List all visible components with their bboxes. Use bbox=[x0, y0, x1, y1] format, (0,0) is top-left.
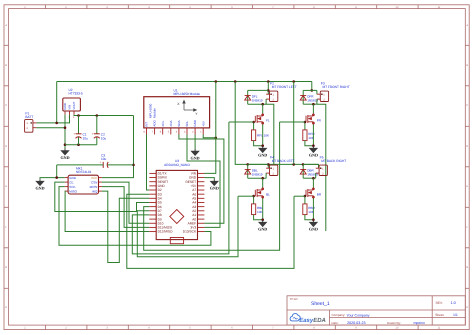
wire capacitor ground rail bbox=[65, 144, 97, 146]
svg-text:B: B bbox=[5, 64, 7, 67]
wire drain BR bbox=[312, 178, 314, 187]
transistor BL bbox=[254, 187, 264, 198]
svg-text:1.0: 1.0 bbox=[450, 301, 455, 305]
wire BR feed from top rail bbox=[293, 82, 295, 165]
svg-text:D: D bbox=[466, 145, 468, 148]
svg-text:B: B bbox=[466, 64, 468, 67]
connector P5 MT BACK RIGHT bbox=[316, 165, 328, 175]
svg-text:HT7333-5: HT7333-5 bbox=[69, 92, 83, 96]
capacitor C2 bbox=[92, 115, 107, 144]
svg-text:+: + bbox=[92, 132, 94, 136]
wire drain BL bbox=[262, 178, 264, 187]
wire drain FR bbox=[312, 104, 314, 113]
wire gate node FR bbox=[304, 122, 306, 130]
wire back row power rail bbox=[235, 82, 319, 165]
svg-text:A: A bbox=[5, 24, 7, 27]
svg-text:Module: Module bbox=[153, 108, 157, 118]
wire battery+ up to rail bbox=[56, 81, 58, 122]
svg-text:D: D bbox=[5, 145, 7, 148]
svg-text:ARDUINO_NANO: ARDUINO_NANO bbox=[164, 163, 190, 167]
diode DFL 1N5819 bbox=[245, 90, 263, 104]
wire INT to D2 bbox=[146, 134, 149, 190]
svg-text:EasyEDA: EasyEDA bbox=[299, 317, 326, 324]
svg-text:Sheet:: Sheet: bbox=[435, 313, 444, 317]
svg-text:GND: GND bbox=[191, 155, 200, 160]
svg-text:MT FRONT LEFT: MT FRONT LEFT bbox=[272, 85, 297, 89]
svg-text:G: G bbox=[466, 266, 468, 269]
wire IRQ to D4 bbox=[102, 191, 149, 262]
svg-text:MPU-6050 Module: MPU-6050 Module bbox=[174, 92, 201, 96]
wire FR gate left bbox=[280, 121, 305, 123]
wire P3 pin2 drop bbox=[316, 99, 318, 104]
resistor ('RFR', '10K') 10K bbox=[303, 130, 316, 141]
svg-text:+5V: +5V bbox=[201, 121, 205, 126]
svg-text:RFL 10K: RFL 10K bbox=[257, 134, 270, 138]
svg-text:GND: GND bbox=[35, 185, 44, 190]
wire D8 to FL gate bbox=[132, 122, 229, 254]
svg-text:1/1: 1/1 bbox=[453, 313, 458, 317]
wire P5 pin2 drop bbox=[315, 173, 317, 178]
svg-text:1N5819: 1N5819 bbox=[252, 99, 263, 103]
svg-text:Company:: Company: bbox=[331, 313, 345, 317]
diode DFR 1N5819 bbox=[300, 90, 318, 104]
svg-text:C: C bbox=[5, 104, 7, 107]
wire +BATT top power rail bbox=[57, 80, 312, 82]
svg-text:VOUT: VOUT bbox=[72, 101, 76, 109]
wire front-left drain link down bbox=[266, 104, 274, 164]
wire ('RBL', '10K') to source rail bbox=[254, 215, 263, 220]
wire source BL bbox=[262, 198, 264, 220]
wire SDA bbox=[179, 134, 224, 223]
svg-text:G: G bbox=[5, 266, 7, 269]
ground under U2 bbox=[61, 148, 68, 154]
svg-text:NRF24L01: NRF24L01 bbox=[76, 170, 92, 174]
wire front-right drain link down bbox=[317, 104, 326, 231]
svg-text:GND: GND bbox=[258, 153, 267, 158]
svg-text:D12/MISO: D12/MISO bbox=[158, 230, 173, 234]
wire ('RBR', '10K') to source rail bbox=[305, 215, 314, 220]
svg-text:SCK: SCK bbox=[69, 185, 75, 189]
wire D3 to BR gate bbox=[127, 194, 294, 268]
wire back rail end feed to P5 bbox=[318, 164, 320, 168]
wire P4 top bbox=[248, 163, 269, 165]
svg-text:FL: FL bbox=[266, 119, 270, 123]
svg-text:XDA: XDA bbox=[169, 120, 173, 126]
svg-text:E: E bbox=[466, 185, 468, 188]
ground right of arduino bbox=[211, 179, 218, 185]
wire MISO to D12 bbox=[65, 191, 150, 231]
svg-text:GND: GND bbox=[63, 103, 67, 109]
connector P3 MT FRONT RIGHT bbox=[317, 91, 329, 101]
wire source BR bbox=[312, 198, 314, 220]
svg-text:VIN: VIN bbox=[68, 105, 72, 110]
wire gate node BL bbox=[253, 196, 255, 204]
capacitor C3 bbox=[99, 153, 109, 168]
wire NRF GND bbox=[40, 178, 65, 180]
svg-text:Date:: Date: bbox=[331, 321, 338, 325]
wire drain FL bbox=[262, 104, 264, 113]
svg-text:D13/SCK: D13/SCK bbox=[183, 230, 197, 234]
wire P2 pin2 drop bbox=[265, 99, 267, 104]
svg-text:H: H bbox=[466, 306, 468, 309]
wire gate node FL bbox=[253, 122, 255, 130]
svg-text:SCL: SCL bbox=[185, 120, 189, 126]
svg-text:+: + bbox=[73, 132, 75, 136]
transistor FL bbox=[254, 113, 264, 124]
connector P1 BATT bbox=[25, 120, 37, 133]
wire MPU GND down bbox=[194, 134, 196, 149]
wire feed to P2 bbox=[267, 82, 269, 95]
svg-text:BR: BR bbox=[317, 193, 322, 197]
wire arduino GND bbox=[204, 178, 214, 180]
wire P2 bottom bbox=[248, 103, 266, 105]
wire P2 top bbox=[248, 89, 269, 91]
wire U2 GND net vertical bbox=[64, 115, 66, 149]
wire rail end feed to P3 bbox=[311, 82, 313, 91]
wire BR gate left bbox=[294, 195, 305, 197]
wire gate node BR bbox=[304, 196, 306, 204]
resistor ('RFL', '10K') 10K bbox=[252, 130, 271, 141]
wire SCK to D13 bbox=[59, 187, 211, 246]
svg-text:BATT: BATT bbox=[25, 115, 33, 119]
svg-text:XCL: XCL bbox=[161, 120, 165, 126]
title block bbox=[287, 296, 465, 325]
diode DBR 1N5819 bbox=[300, 164, 318, 178]
svg-text:ADO: ADO bbox=[153, 119, 157, 126]
module MK1 NRF24L01 bbox=[65, 175, 102, 194]
svg-text:GND: GND bbox=[60, 155, 69, 160]
diode DBL 1N5819 bbox=[245, 164, 263, 178]
svg-text:A: A bbox=[466, 24, 468, 27]
wire VOUT 3V3 rail bbox=[74, 114, 134, 117]
wire FL gate left bbox=[229, 121, 254, 123]
svg-text:VCC: VCC bbox=[91, 176, 98, 180]
svg-text:10u: 10u bbox=[101, 157, 107, 161]
svg-text:TITLE:: TITLE: bbox=[289, 297, 298, 301]
wire P5 bottom bbox=[303, 177, 316, 179]
svg-text:MT BACK RIGHT: MT BACK RIGHT bbox=[321, 159, 346, 163]
wire P5 top bbox=[303, 163, 318, 165]
resistor ('RBL', '10K') 10K bbox=[251, 204, 263, 215]
svg-text:GND: GND bbox=[309, 227, 318, 232]
EasyEDA logo bbox=[290, 314, 326, 324]
svg-text:GND: GND bbox=[69, 176, 77, 180]
svg-text:REV:: REV: bbox=[436, 301, 443, 305]
ground under MPU bbox=[192, 149, 199, 155]
transistor FR bbox=[304, 113, 314, 124]
svg-text:SDA: SDA bbox=[177, 120, 181, 126]
svg-text:C: C bbox=[466, 104, 468, 107]
junction dots on power rail bbox=[215, 80, 218, 83]
svg-text:IRQ: IRQ bbox=[92, 189, 98, 193]
wire P4 pin2 drop bbox=[265, 173, 267, 178]
wire C3 branch bbox=[57, 164, 101, 166]
ground P2 block bbox=[259, 146, 266, 152]
wire BL gate left bbox=[238, 195, 254, 197]
svg-text:2020-03-23: 2020-03-23 bbox=[347, 321, 365, 325]
regulator U2 HT7333-5 bbox=[63, 98, 81, 119]
svg-text:GND: GND bbox=[309, 153, 318, 158]
wire CE to D5 bbox=[55, 182, 150, 211]
wire P3 top bbox=[303, 89, 317, 91]
wire rail down to arduino VIN bbox=[204, 81, 215, 173]
svg-text:INT: INT bbox=[145, 122, 149, 127]
wire P3 bottom bbox=[303, 103, 317, 105]
wire source FL bbox=[262, 124, 264, 146]
svg-text:Your Company: Your Company bbox=[346, 313, 369, 317]
wire MOSI to D11 bbox=[102, 187, 149, 228]
wire battery- to GND net bbox=[36, 127, 65, 129]
svg-text:Drawn By:: Drawn By: bbox=[387, 321, 401, 325]
ground P3 block bbox=[310, 146, 317, 152]
ground left of NRF bbox=[36, 179, 43, 185]
module U3 ARDUINO NANO bbox=[149, 170, 204, 243]
svg-text:mpeino: mpeino bbox=[413, 321, 425, 325]
svg-text:MT FRONT RIGHT: MT FRONT RIGHT bbox=[323, 85, 350, 89]
svg-text:H: H bbox=[5, 306, 7, 309]
svg-text:BL: BL bbox=[266, 193, 270, 197]
wire ('RFL', '10K') to source rail bbox=[254, 141, 263, 146]
wire battery+ to VIN bbox=[36, 115, 69, 123]
wire D6 to FR gate bbox=[144, 122, 280, 250]
svg-text:10u: 10u bbox=[101, 137, 107, 141]
wire D7 to BL gate bbox=[137, 196, 238, 257]
svg-text:10u: 10u bbox=[83, 137, 89, 141]
wire CSN to D10 bbox=[102, 182, 149, 223]
connector P4 MT BACK LEFT bbox=[266, 165, 278, 175]
wire 3V3 down to NRF VCC bbox=[102, 115, 134, 177]
wire back rail feed to P4 bbox=[267, 164, 269, 168]
svg-text:CE: CE bbox=[69, 180, 73, 184]
svg-text:MT BACK LEFT: MT BACK LEFT bbox=[272, 159, 295, 163]
svg-text:MISO: MISO bbox=[69, 189, 77, 193]
wire P3 pin1 drop bbox=[316, 90, 318, 94]
svg-text:GND: GND bbox=[258, 227, 267, 232]
wire ('RFR', '10K') to source rail bbox=[305, 141, 314, 146]
svg-text:CSN: CSN bbox=[91, 180, 97, 184]
svg-text:GND: GND bbox=[210, 185, 219, 190]
svg-text:1N5819: 1N5819 bbox=[252, 173, 263, 177]
module U1 MPU-6050 bbox=[144, 97, 210, 135]
ground P4 block bbox=[259, 220, 266, 226]
junction node battery+ bbox=[55, 122, 58, 125]
resistor ('RBR', '10K') 10K bbox=[303, 204, 316, 215]
transistor BR bbox=[304, 187, 314, 198]
wire P4 bottom bbox=[248, 177, 266, 179]
wire SCL bbox=[187, 134, 220, 227]
ground P5 block bbox=[310, 220, 317, 226]
svg-text:Sheet_1: Sheet_1 bbox=[311, 301, 330, 307]
svg-text:GND: GND bbox=[193, 119, 197, 127]
wire source FR bbox=[312, 124, 314, 146]
svg-text:MOSI: MOSI bbox=[90, 185, 98, 189]
capacitor C1 bbox=[73, 115, 88, 144]
wire MPU +5V to VIN rail bbox=[203, 134, 216, 137]
svg-text:1N5819: 1N5819 bbox=[307, 173, 318, 177]
svg-text:E: E bbox=[5, 185, 7, 188]
connector P2 MT FRONT LEFT bbox=[266, 91, 278, 101]
